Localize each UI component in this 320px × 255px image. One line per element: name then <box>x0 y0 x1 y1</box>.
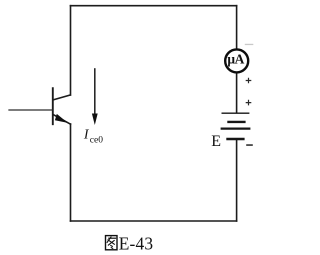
svg-text:E-43: E-43 <box>119 234 154 254</box>
svg-text:E: E <box>211 133 221 150</box>
svg-text:μA: μA <box>227 51 244 66</box>
svg-text:ce0: ce0 <box>90 136 103 146</box>
